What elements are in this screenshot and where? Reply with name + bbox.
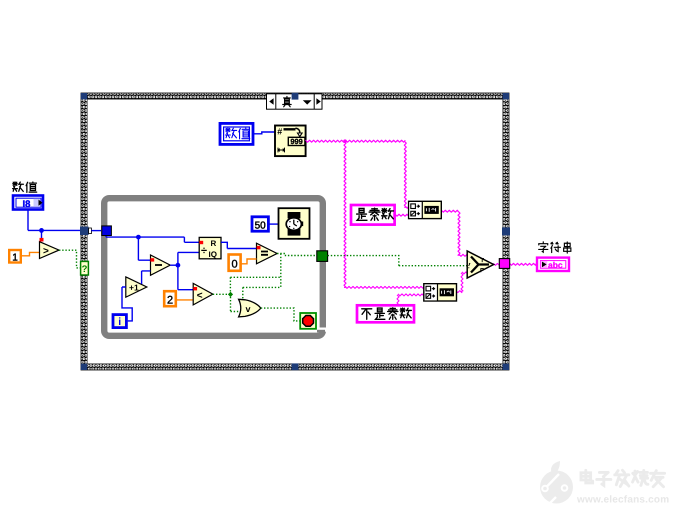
string wire select to tunnel [493,263,499,265]
string wire concat1 to select [441,210,467,256]
svg-text:R: R [211,239,217,248]
number to fractional string node [275,126,306,157]
boolean wire less-than to junction [213,293,228,295]
constant 2 [164,291,176,306]
wire increment to subtract [142,271,151,284]
boolean branch equal down [280,254,282,288]
coercion dot less-than [193,287,197,290]
equal node [257,243,278,264]
junction inside loop [136,235,141,240]
string wire label2 to concat2 [397,294,424,305]
concatenate strings node 1 [409,201,442,218]
string wire concat2 to select [456,272,467,293]
string indicator abc [537,258,569,271]
quotient-remainder node [199,237,221,258]
wire 0 to equal [241,259,257,264]
svg-text:IQ: IQ [209,250,217,259]
boolean wire equal output to tunnel [213,254,317,312]
boolean wire greater to ? tunnel [59,250,81,268]
svg-text:?: ? [82,264,88,275]
svg-text:>: > [43,246,49,257]
string wire to concat2 [345,286,424,288]
branch down to less-than [178,265,193,290]
wire remainder to equal [221,242,257,248]
wire i to increment [122,287,132,321]
boolean tunnel on loop border [317,251,328,262]
string constant bushisushu [357,305,414,322]
string wire junction dot [343,139,347,143]
wire branch down to greater node [41,230,43,238]
case structure border (hatched) [81,93,509,370]
boolean junction diamond [228,292,233,297]
concatenate strings node 2 [424,284,457,301]
subtract node [151,255,171,275]
branch down to subtract [138,237,150,260]
tunnel on case border (blue) [80,227,89,235]
wire inside loop from tunnel [106,236,199,242]
wire 2 to less-than [176,299,193,301]
less-than node [193,283,213,305]
numeric control terminal I8 [13,196,43,211]
string constant shisushu [351,205,395,225]
svg-text:v: v [246,304,251,314]
local variable shuzhi [220,123,253,144]
svg-text:÷: ÷ [201,245,207,257]
or node [239,299,261,317]
constant 0 [229,255,241,271]
increment node +1 [126,277,147,297]
string wire branch down [344,141,346,287]
branch up to quotient-remainder [178,252,199,265]
boolean wire tunnel to select [328,256,467,266]
wire local variable to number-to-string [254,132,276,134]
select node [467,251,493,278]
loop tunnel (blue square) [102,226,112,236]
svg-text:<: < [197,291,203,302]
boolean wire or to stop [261,308,300,321]
svg-text:abc: abc [548,260,563,270]
svg-text:999: 999 [290,137,303,146]
wire subtract output [170,264,178,266]
wire 50 to wait [270,223,279,225]
greater-than node [40,242,60,259]
svg-text:#: # [277,127,282,137]
svg-text:www.elecfans.com: www.elecfans.com [576,495,669,506]
? tunnel on case border [81,261,89,275]
constant 50 [252,217,268,231]
string wire number-to-string output [306,140,406,142]
while loop border [104,198,323,336]
svg-text:+1: +1 [129,283,139,293]
loop condition stop terminal [300,313,316,329]
selection handles of case structure [81,93,510,370]
coercion dot subtract [150,258,154,261]
wire control to case tunnel [28,211,80,231]
svg-text:50: 50 [255,221,267,232]
svg-text:i: i [118,316,121,328]
string tunnel on case border [499,259,509,269]
watermark text dianzifashaoyou [581,470,593,483]
wire 1 to greater node [21,252,40,255]
wait-ms-multiple node (watch icon) [279,208,310,239]
string indicator label zifuchuan [539,242,571,253]
svg-text:I8: I8 [23,199,31,210]
svg-text:2: 2 [167,294,173,306]
string wire down to concat1 [404,141,408,208]
while loop corner notch [319,328,328,332]
string wire label1 to concat1 [395,214,409,216]
numeric control label shuzhi [13,182,37,193]
coercion dot on greater node [40,238,44,242]
wire case tunnel to loop tunnel [91,230,101,232]
string wire tunnel to indicator [510,263,537,265]
iteration terminal i [113,315,126,328]
svg-text:1: 1 [12,252,18,263]
coercion dot qr [199,241,203,244]
constant 1 [9,250,21,263]
coercion dot equal [257,246,261,249]
wire junction [39,228,44,233]
case selector label "true" [267,94,323,109]
watermark logo circle [540,461,573,504]
svg-text:0: 0 [232,258,238,270]
